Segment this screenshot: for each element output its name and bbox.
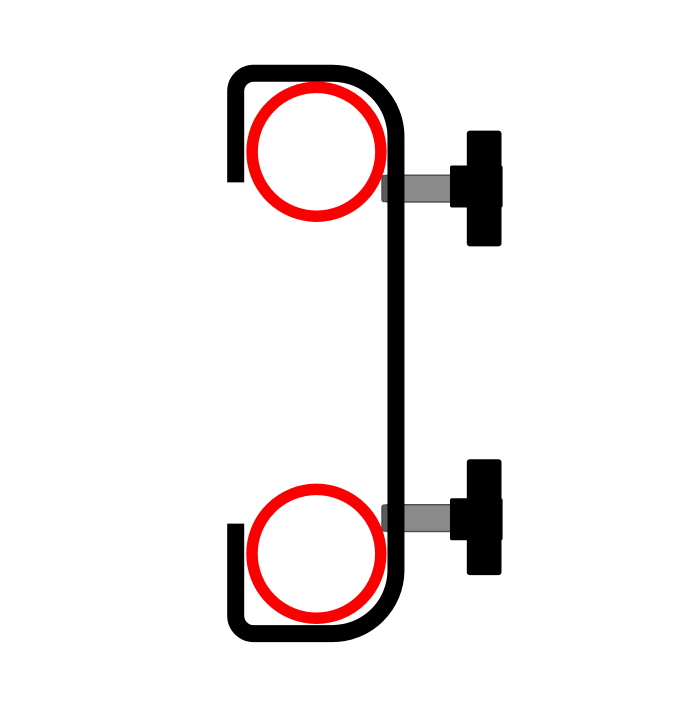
upper knob hub	[450, 166, 503, 208]
upper knob handle	[467, 131, 502, 247]
upper screw tip (dark pad)	[382, 176, 398, 202]
bracket frame (continuous C-channel stroke)	[236, 73, 396, 633]
lower knob hub	[450, 498, 503, 540]
upper clamp screw shaft (threaded rod)	[387, 175, 460, 202]
lower knob handle	[467, 459, 502, 575]
upper clamped tube (red circle)	[252, 87, 381, 216]
lower clamp screw shaft (threaded rod)	[387, 505, 460, 532]
lower clamped tube (red circle)	[252, 489, 381, 618]
lower screw tip (dark pad)	[382, 505, 398, 531]
